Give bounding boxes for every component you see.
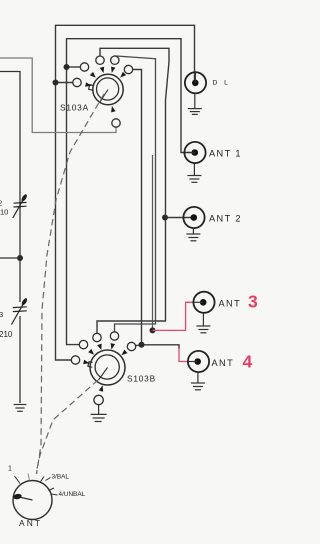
leader 3/BAL — [46, 478, 51, 481]
rotary switch S103B — [88, 350, 125, 385]
S103B contact NNW — [93, 333, 102, 350]
S103A contact NNW — [96, 56, 104, 73]
S103A contact W — [73, 78, 92, 86]
connector DL — [185, 72, 206, 93]
wire red to ANT3 — [153, 302, 194, 330]
tick position 3 — [40, 477, 44, 483]
variable capacitor C-3 (value 210) — [12, 297, 29, 324]
S103A contact NE — [120, 65, 133, 77]
wire net2 loop (S103A NW / S103B NW / ANT1) — [67, 39, 196, 345]
wire net3 loop (S103A NNW / ANT2 / S103B NNW) — [97, 48, 194, 333]
rotary switch ANT (front panel) — [13, 481, 52, 520]
ground below DL — [188, 109, 202, 115]
wire net4 loop (S103A NNE / S103B N) — [115, 56, 156, 332]
svg-text:D L: D L — [213, 80, 231, 87]
ground below S103B — [91, 414, 107, 421]
wire net1 top loop (S103A W / S103B W / DL) — [56, 25, 195, 360]
mechanical linkage dashed S103A to ANT switch — [37, 94, 105, 474]
wire DL to ground — [194, 93, 196, 108]
wire black to trimmer line (left edge) — [0, 72, 20, 404]
wire ANT2 to ground — [192, 228, 194, 234]
node dot net1 — [53, 80, 59, 86]
wire ANT1 to ground — [193, 163, 195, 175]
svg-text:S103A: S103A — [60, 103, 89, 113]
svg-text:3/BAL: 3/BAL — [52, 474, 70, 481]
S103A contact NW — [80, 63, 95, 78]
S103A contact NNE — [111, 56, 119, 73]
mechanical linkage dashed S103B to ANT switch — [37, 380, 99, 471]
svg-text:10: 10 — [0, 208, 8, 217]
ground below ANT2 — [186, 234, 200, 241]
connector ANT 4 — [188, 351, 209, 372]
rotary switch S103A — [89, 74, 124, 104]
wire net6 vertical to ANT3 — [152, 155, 154, 330]
svg-text:3: 3 — [248, 292, 258, 312]
wire S103B S contact to ground — [98, 404, 100, 414]
node dot net2 — [64, 64, 70, 70]
svg-text:ANT: ANT — [219, 299, 242, 309]
leader 4/UNBAL — [51, 494, 58, 495]
S103A contact S (rotor feed) — [111, 106, 120, 127]
tick position 1 — [15, 476, 21, 484]
svg-text:4: 4 — [243, 352, 253, 372]
svg-text:2: 2 — [0, 199, 2, 208]
tick position 4 — [49, 488, 55, 491]
svg-text:1: 1 — [8, 466, 12, 473]
node dot ANT3 junction — [150, 327, 156, 333]
connector ANT 3 — [193, 292, 214, 313]
ground below ANT1 — [187, 176, 201, 183]
S103B contact NE — [121, 342, 135, 355]
connector ANT 1 — [184, 142, 205, 163]
ground below ANT3 — [196, 326, 210, 333]
svg-text:ANT 2: ANT 2 — [209, 214, 242, 224]
svg-text:210: 210 — [0, 330, 13, 339]
S103B contact N — [110, 332, 118, 350]
wire net5 (S103A NE / S103B NE / ANT4) — [132, 70, 179, 350]
svg-text:3: 3 — [0, 310, 3, 319]
svg-text:ANT: ANT — [19, 518, 42, 528]
variable capacitor C-2 (value 10) — [13, 193, 28, 218]
svg-text:ANT: ANT — [212, 358, 235, 368]
wire ANT4 to ground — [197, 372, 199, 383]
node dot ANT4 junction — [139, 342, 145, 348]
svg-text:ANT 1: ANT 1 — [209, 149, 242, 159]
node dot ANT2 junction — [162, 215, 168, 221]
connector ANT 2 — [183, 207, 204, 228]
svg-text:4/UNBAL: 4/UNBAL — [59, 491, 86, 498]
S103B contact W — [71, 356, 89, 364]
wire ANT3 to ground — [202, 313, 204, 326]
ground below ANT4 — [191, 383, 205, 390]
wire red to ANT4 — [179, 348, 188, 362]
wire grey S103A rotor common (left edge) — [0, 58, 116, 133]
node dot trimmer line — [17, 255, 23, 261]
S103B contact S (to ground) — [94, 385, 103, 404]
ground below trimmer line — [14, 405, 27, 412]
svg-text:S103B: S103B — [127, 374, 156, 384]
S103B contact NW — [79, 340, 94, 354]
tick position 2 — [28, 474, 30, 481]
